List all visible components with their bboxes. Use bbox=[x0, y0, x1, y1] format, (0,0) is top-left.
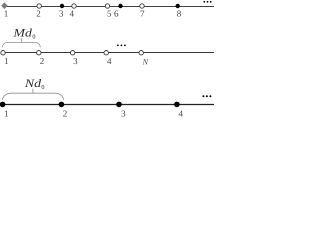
node 2 row3 (filled) bbox=[59, 102, 65, 108]
svg-text:3: 3 bbox=[59, 9, 64, 19]
svg-text:2: 2 bbox=[36, 9, 41, 19]
svg-text:7: 7 bbox=[140, 9, 145, 19]
node 3 row3 (filled) bbox=[116, 102, 122, 108]
brace row3 bbox=[2, 93, 64, 100]
node 8 row1 (filled) bbox=[176, 4, 180, 8]
labels row3 bbox=[4, 109, 183, 119]
labels row2 bbox=[4, 56, 148, 67]
svg-text:1: 1 bbox=[4, 9, 9, 19]
wire row1 bbox=[4, 6, 214, 8]
svg-text:4: 4 bbox=[107, 56, 112, 66]
svg-text:Md: Md bbox=[12, 28, 32, 40]
svg-text:0: 0 bbox=[41, 84, 44, 91]
node 4 row3 (filled) bbox=[174, 102, 180, 108]
svg-text:6: 6 bbox=[114, 9, 119, 19]
node 6 row1 (filled) bbox=[118, 4, 122, 8]
node 2 row1 (open) bbox=[37, 4, 41, 8]
svg-text:1: 1 bbox=[4, 109, 9, 119]
svg-text:4: 4 bbox=[178, 109, 183, 119]
ellipsis row3 bbox=[202, 95, 211, 97]
svg-text:0: 0 bbox=[32, 33, 35, 40]
node 1 row1 (gray diamond) bbox=[1, 2, 8, 9]
svg-text:8: 8 bbox=[177, 9, 182, 19]
node 1 row2 (open) bbox=[1, 51, 5, 55]
brace row2 bbox=[2, 43, 40, 48]
labels row1 bbox=[4, 9, 182, 19]
node 2 row2 (open) bbox=[37, 51, 41, 55]
node 7 row1 (open) bbox=[140, 4, 144, 8]
svg-text:5: 5 bbox=[107, 9, 112, 19]
node 4 row2 (open) bbox=[104, 51, 108, 55]
svg-text:1: 1 bbox=[4, 56, 9, 66]
svg-text:3: 3 bbox=[73, 56, 78, 66]
wire row2 bbox=[2, 52, 214, 54]
brace tick row2 bbox=[20, 38, 22, 43]
svg-text:3: 3 bbox=[121, 109, 126, 119]
ellipsis row1 bbox=[203, 1, 211, 3]
node N row2 (open) bbox=[139, 51, 143, 55]
svg-text:2: 2 bbox=[40, 56, 45, 66]
node 5 row1 (open) bbox=[105, 4, 109, 8]
node 4 row1 (open) bbox=[72, 4, 76, 8]
svg-text:N: N bbox=[142, 58, 149, 67]
svg-text:4: 4 bbox=[70, 9, 75, 19]
wire row3 bbox=[2, 104, 214, 106]
brace tick row3 bbox=[32, 89, 34, 94]
node 3 row2 (open) bbox=[71, 51, 75, 55]
ellipsis row2 bbox=[117, 45, 126, 47]
node 3 row1 (filled) bbox=[60, 4, 64, 8]
node 1 row3 (filled) bbox=[0, 102, 5, 108]
svg-text:2: 2 bbox=[63, 109, 68, 119]
svg-text:Nd: Nd bbox=[24, 78, 42, 90]
